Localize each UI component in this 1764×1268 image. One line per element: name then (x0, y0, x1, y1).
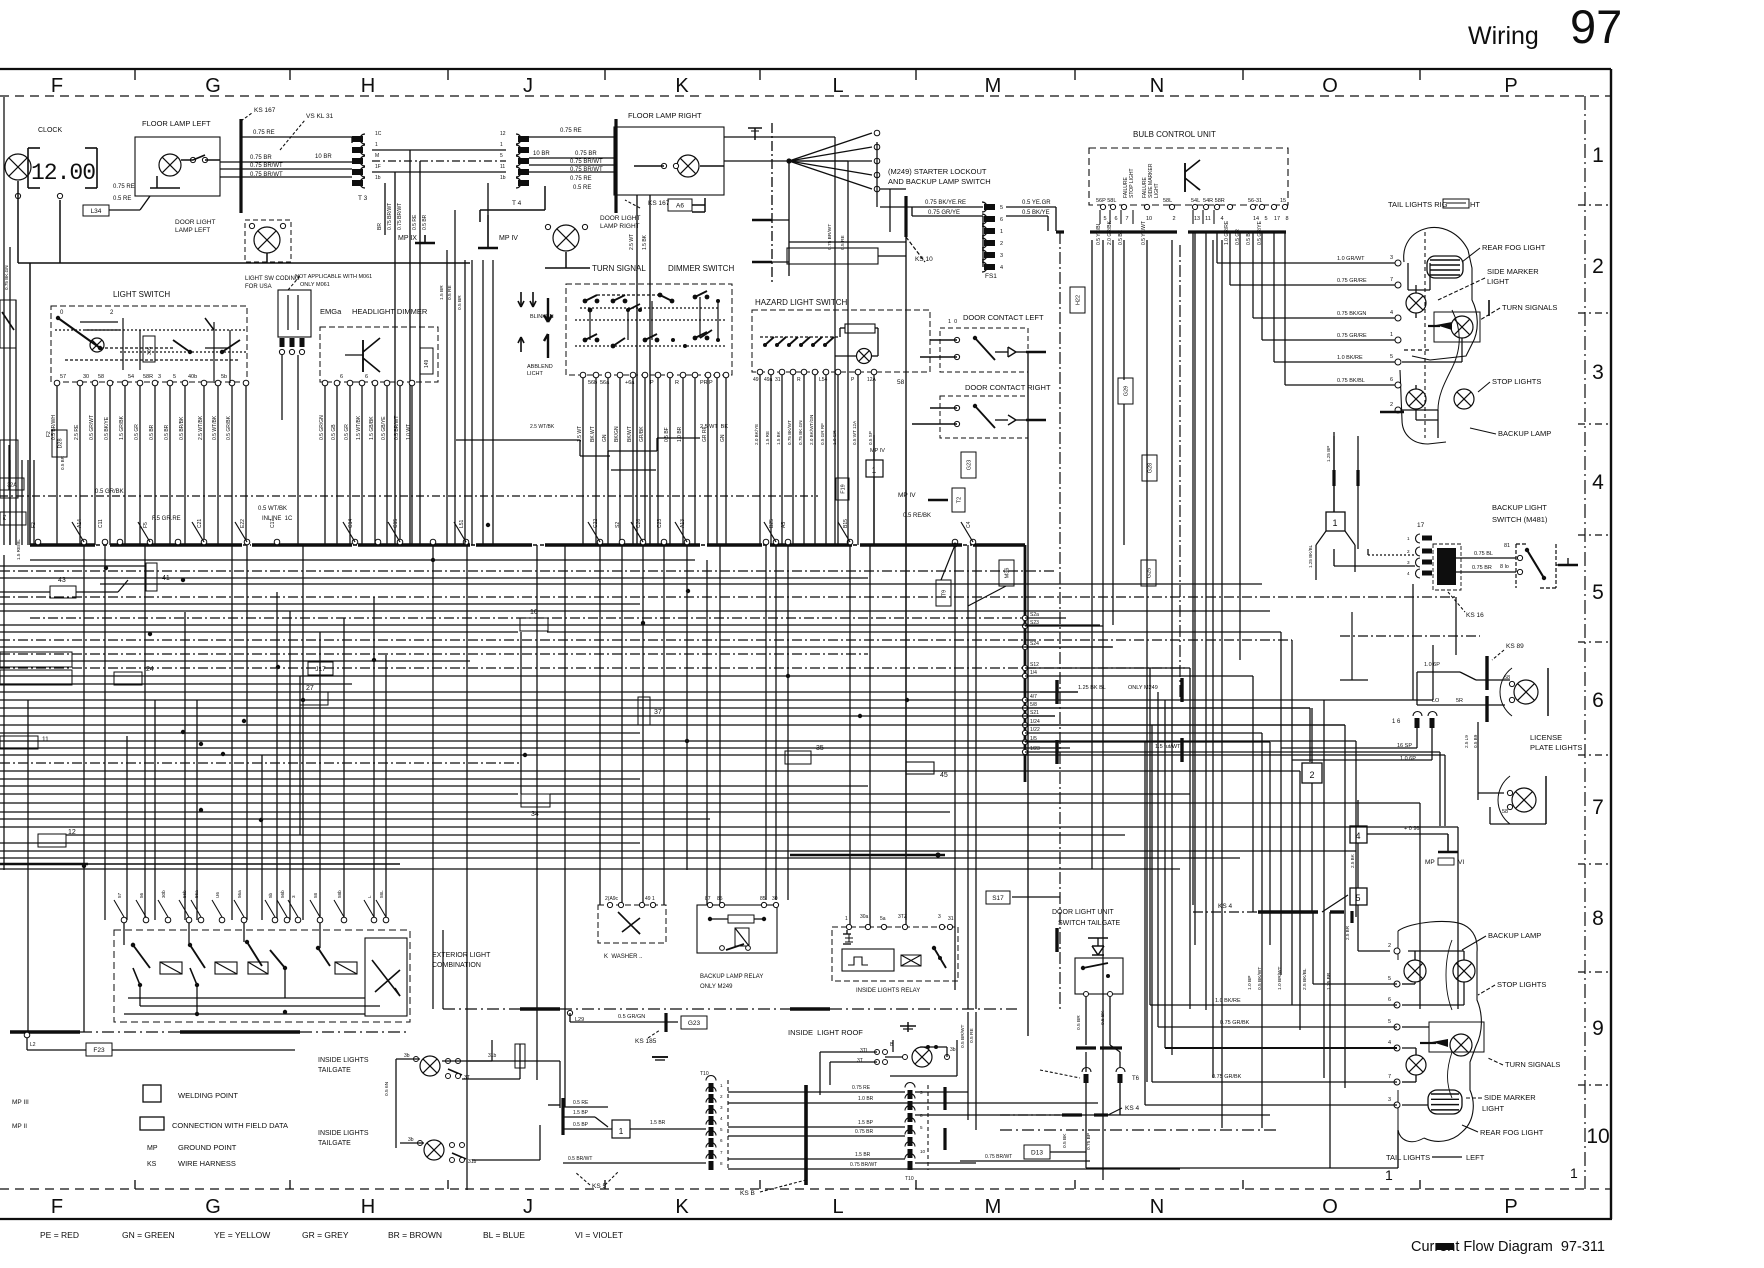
KS black connector block (1433, 544, 1484, 619)
svg-text:C22: C22 (593, 519, 599, 528)
svg-text:0.75 GR/RE: 0.75 GR/RE (1337, 333, 1367, 339)
svg-text:27: 27 (306, 685, 314, 692)
svg-text:BR = BROWN: BR = BROWN (388, 1230, 442, 1240)
boxed label M36 (999, 560, 1014, 586)
svg-text:0.75 RE: 0.75 RE (253, 130, 275, 136)
bus diagonal stubs (72, 522, 973, 542)
svg-text:0.5 BR: 0.5 BR (149, 424, 155, 440)
svg-text:J17: J17 (315, 666, 326, 673)
svg-text:4: 4 (1390, 310, 1393, 316)
svg-text:SWITCH (M481): SWITCH (M481) (1492, 515, 1548, 524)
svg-text:T 3: T 3 (358, 195, 368, 202)
svg-text:2.5 WT/BK: 2.5 WT/BK (198, 415, 204, 440)
svg-text:30a: 30a (860, 914, 869, 920)
svg-text:J: J (523, 1196, 533, 1218)
svg-text:ABBLEND: ABBLEND (527, 364, 553, 370)
vertical wires through field (28, 430, 976, 1190)
connector stack FS1 (982, 202, 1003, 280)
svg-text:KS 16: KS 16 (1466, 612, 1484, 619)
svg-text:G23: G23 (967, 460, 973, 470)
turn signal dimmer switch label (592, 264, 734, 273)
svg-text:DOOR CONTACT RIGHT: DOOR CONTACT RIGHT (965, 383, 1051, 392)
svg-text:11: 11 (1205, 216, 1211, 222)
svg-text:P: P (709, 380, 713, 386)
license plate light lower bulb (1478, 722, 1546, 824)
NE vertical wire bundle (1092, 232, 1285, 1180)
svg-text:7: 7 (1388, 1074, 1391, 1080)
svg-text:G: G (205, 1196, 221, 1218)
svg-text:1.5 BP: 1.5 BP (573, 1110, 589, 1116)
boxed label F19 (836, 478, 849, 500)
svg-text:TURN SIGNAL: TURN SIGNAL (592, 264, 646, 273)
svg-text:57: 57 (117, 892, 122, 898)
svg-text:0.75 BL: 0.75 BL (1474, 551, 1493, 557)
svg-text:EXTERIOR LIGHT: EXTERIOR LIGHT (432, 952, 491, 959)
svg-text:0.75 GR/RE: 0.75 GR/RE (1337, 278, 1367, 284)
svg-text:0.75 BK/BL: 0.75 BK/BL (1337, 378, 1365, 384)
svg-text:85: 85 (717, 896, 723, 902)
headlight dimmer wire labels (319, 415, 412, 440)
ground MP IX (398, 235, 435, 243)
svg-text:7: 7 (1592, 796, 1604, 819)
svg-text:KS 4: KS 4 (1218, 903, 1232, 910)
KS 185 label bottom (635, 1030, 668, 1060)
svg-text:P: P (1504, 75, 1517, 97)
bulb control unit terminals (1100, 204, 1287, 209)
svg-text:0.5 BK/WT: 0.5 BK/WT (1257, 967, 1263, 990)
boxed label T2 right of hazard (952, 488, 965, 512)
license plate connector pair (1392, 712, 1437, 729)
hazard switch contacts (760, 328, 878, 356)
svg-text:T10: T10 (905, 1176, 914, 1182)
legend wire harness (147, 1159, 236, 1168)
backup light switch label (1492, 503, 1548, 524)
svg-text:S17: S17 (992, 895, 1004, 902)
svg-text:0.5 RE: 0.5 RE (447, 285, 453, 300)
svg-text:7: 7 (1390, 277, 1393, 283)
svg-text:0.75 BR: 0.75 BR (575, 151, 597, 157)
wires floor lamp left to H connector (220, 130, 352, 178)
svg-text:KS 4: KS 4 (1125, 1105, 1139, 1112)
svg-text:TURN SIGNALS: TURN SIGNALS (1505, 1060, 1560, 1069)
svg-text:C21: C21 (197, 519, 203, 528)
svg-text:1.5 BK: 1.5 BK (642, 234, 648, 250)
svg-text:0.5 GR/GN: 0.5 GR/GN (319, 415, 325, 440)
svg-text:INSIDE LIGHTS RELAY: INSIDE LIGHTS RELAY (856, 988, 920, 994)
svg-text:DOOR LIGHT: DOOR LIGHT (175, 219, 215, 226)
svg-text:INSIDE LIGHT ROOF: INSIDE LIGHT ROOF (788, 1028, 863, 1037)
svg-text:N: N (1150, 75, 1164, 97)
svg-text:U6: U6 (215, 892, 220, 898)
svg-text:30: 30 (83, 374, 89, 380)
svg-text:5: 5 (173, 374, 176, 380)
light switch terminal drops to bus (57, 386, 246, 545)
svg-text:85: 85 (760, 896, 766, 902)
svg-text:9: 9 (1592, 1017, 1604, 1040)
svg-text:7: 7 (720, 1150, 723, 1155)
svg-text:BACKUP LAMP: BACKUP LAMP (1498, 429, 1551, 438)
svg-text:ONLY M249: ONLY M249 (700, 984, 733, 990)
svg-text:2: 2 (1388, 943, 1391, 949)
svg-text:1: 1 (845, 916, 848, 922)
ground MP IV (478, 183, 518, 248)
row band dash-dot divider vertical (1584, 96, 1586, 1189)
svg-text:SIDE MARKER: SIDE MARKER (1487, 267, 1539, 276)
svg-text:1.5 RE/BL: 1.5 RE/BL (16, 539, 21, 560)
ground MP 2 VI (1367, 826, 1464, 866)
floor lamp right bulb (677, 155, 699, 177)
staircase wires above bus (456, 424, 728, 470)
svg-text:1.5 BR: 1.5 BR (650, 1120, 666, 1126)
svg-text:10 BR: 10 BR (533, 151, 550, 157)
svg-text:3b: 3b (408, 1137, 414, 1143)
svg-text:15: 15 (1280, 198, 1286, 204)
exterior light combination terminal labels (117, 890, 384, 898)
left edge partial switch box (0, 300, 16, 348)
backup switch contacts (1516, 544, 1578, 588)
svg-text:56-31: 56-31 (1248, 198, 1262, 204)
svg-text:REAR FOG LIGHT: REAR FOG LIGHT (1482, 243, 1546, 252)
boxed label J17 (308, 662, 333, 675)
turn signal wire labels (577, 426, 726, 442)
svg-text:2.5 WT: 2.5 WT (629, 234, 635, 250)
svg-text:49: 49 (753, 377, 759, 383)
door light lamp left label (175, 219, 215, 234)
svg-text:L2: L2 (30, 1042, 36, 1048)
svg-text:BACKUP LIGHT: BACKUP LIGHT (1492, 503, 1547, 512)
svg-text:13: 13 (1194, 216, 1200, 222)
svg-text:F.5 GR.RE: F.5 GR.RE (152, 516, 181, 522)
svg-text:2.5 BR: 2.5 BR (1345, 925, 1350, 940)
bus terminal labels (31, 519, 972, 528)
svg-text:8: 8 (1592, 907, 1604, 930)
svg-text:TAILGATE: TAILGATE (318, 1140, 351, 1147)
inside lights tailgate label lower (318, 1130, 369, 1147)
label 58 junction (897, 237, 906, 920)
svg-text:G23: G23 (688, 1020, 701, 1027)
svg-text:A13: A13 (680, 519, 686, 528)
svg-text:L: L (367, 895, 372, 898)
svg-text:0.75 BR/WT: 0.75 BR/WT (387, 203, 393, 230)
svg-text:0.5 RE: 0.5 RE (969, 1028, 975, 1043)
svg-text:3: 3 (938, 914, 941, 920)
svg-text:0.5 YE/WT: 0.5 YE/WT (1141, 221, 1147, 245)
svg-text:30: 30 (772, 896, 778, 902)
svg-text:1.5 BR: 1.5 BR (855, 1152, 871, 1158)
svg-text:KS B: KS B (740, 1190, 755, 1197)
hazard light switch box (752, 310, 930, 372)
starter lockout lower connector box (787, 242, 906, 276)
svg-text:BACKUP LAMP: BACKUP LAMP (1488, 931, 1541, 940)
feeder terminals and labels (1022, 612, 1040, 755)
boxed label S17 (986, 891, 1060, 904)
tailgate lamp wires right (462, 1040, 560, 1160)
interior coding connector (245, 274, 372, 355)
svg-text:0.5 GR: 0.5 GR (134, 424, 140, 440)
svg-text:5a: 5a (880, 916, 886, 922)
svg-text:D13: D13 (1031, 1149, 1043, 1156)
svg-text:LIGHT: LIGHT (1154, 183, 1160, 198)
svg-text:0.75 BR: 0.75 BR (1472, 565, 1492, 571)
svg-text:H22: H22 (1076, 295, 1082, 305)
svg-text:2.5 RE: 2.5 RE (74, 424, 80, 440)
svg-text:5b: 5b (268, 892, 273, 898)
svg-text:37: 37 (654, 709, 662, 716)
svg-text:43: 43 (58, 577, 66, 584)
svg-text:56P 58L: 56P 58L (1096, 198, 1116, 204)
svg-text:KS 167: KS 167 (254, 107, 276, 114)
left margin stacked connector boxes (0, 512, 72, 749)
svg-text:S12: S12 (1030, 662, 1039, 668)
svg-text:A14: A14 (77, 519, 83, 528)
wires feeding tail left (1145, 905, 1397, 1105)
door contact left switch (920, 319, 1046, 1036)
svg-text:FLOOR LAMP RIGHT: FLOOR LAMP RIGHT (628, 111, 702, 120)
rear fog light left label (1462, 1125, 1544, 1137)
exterior light combination label (432, 952, 491, 969)
legend welding point (143, 1085, 238, 1102)
svg-text:CLOCK: CLOCK (38, 127, 62, 134)
svg-text:2: 2 (1407, 549, 1410, 554)
big bold vertical KS B (740, 1085, 806, 1197)
boxed label G28 (1142, 455, 1157, 481)
riser from 4/7 line (1432, 645, 1434, 700)
svg-text:INLINE 1C: INLINE 1C (262, 516, 293, 522)
svg-text:C26: C26 (636, 519, 642, 528)
stop lights right bulbs (1406, 389, 1474, 409)
exterior light relay 4 (316, 923, 357, 974)
svg-text:0.5 BK/YE: 0.5 BK/YE (104, 416, 110, 440)
svg-text:49 1: 49 1 (645, 896, 655, 902)
svg-text:58R: 58R (143, 374, 153, 380)
tail left terminals (1388, 943, 1400, 1108)
wire F23 right (112, 1049, 295, 1051)
boxed label T9 (936, 580, 951, 606)
fuse label L34 (83, 184, 150, 216)
turn signal extra contacts (575, 299, 725, 348)
svg-text:81: 81 (1504, 543, 1510, 549)
svg-text:+6a: +6a (625, 380, 635, 386)
svg-text:KS 10: KS 10 (915, 256, 933, 263)
svg-text:4/7: 4/7 (1030, 694, 1037, 700)
boxed connector 1 bottom (612, 1120, 706, 1138)
svg-text:34: 34 (531, 811, 539, 818)
light switch wire color labels (51, 415, 232, 440)
roof light drops (960, 1012, 976, 1130)
svg-text:H: H (361, 1196, 375, 1218)
svg-text:DOOR CONTACT LEFT: DOOR CONTACT LEFT (963, 313, 1044, 322)
svg-text:1: 1 (619, 1126, 624, 1136)
svg-text:BULB CONTROL UNIT: BULB CONTROL UNIT (1133, 130, 1216, 139)
svg-text:4: 4 (1000, 265, 1003, 271)
wires to boxed 1 connector (563, 1100, 612, 1129)
svg-text:5: 5 (1355, 893, 1360, 903)
column letters bottom (51, 1196, 1518, 1218)
svg-text:5: 5 (1390, 354, 1393, 360)
svg-text:0.75 GR/BK: 0.75 GR/BK (1212, 1074, 1242, 1080)
svg-text:BK/WT: BK/WT (627, 426, 633, 442)
bulb control unit box (1089, 148, 1288, 205)
svg-text:M: M (985, 1196, 1002, 1218)
svg-text:1 6: 1 6 (1392, 719, 1401, 725)
column boundary ticks (135, 69, 1420, 1189)
svg-text:5R: 5R (1456, 698, 1463, 704)
svg-text:11: 11 (42, 736, 49, 743)
wires bulb unit to tail right (1217, 256, 1395, 385)
clock display 12.00 (28, 148, 97, 188)
svg-text:6: 6 (720, 1138, 723, 1143)
svg-text:LIGHT: LIGHT (1487, 277, 1510, 286)
svg-text:1.0 BK/RE: 1.0 BK/RE (1215, 998, 1241, 1004)
license plate harness bold ticks (1485, 656, 1488, 722)
svg-text:MP II: MP II (12, 1123, 27, 1130)
svg-text:+ 0 96: + 0 96 (1404, 826, 1419, 832)
license plate wires lower (1281, 728, 1478, 762)
headlight dimmer box (320, 327, 438, 382)
svg-text:4: 4 (1407, 571, 1410, 576)
svg-text:24: 24 (146, 666, 154, 673)
door light unit ground and diode (1088, 938, 1108, 955)
svg-text:LICHT: LICHT (527, 371, 544, 377)
wires across KS B (728, 1085, 1180, 1169)
svg-text:58: 58 (98, 374, 104, 380)
svg-text:1.0 BR: 1.0 BR (858, 1096, 874, 1102)
svg-text:HEADLIGHT DIMMER: HEADLIGHT DIMMER (352, 307, 428, 316)
svg-text:5: 5 (720, 1127, 723, 1132)
svg-text:2: 2 (1000, 241, 1003, 247)
svg-text:F5: F5 (143, 522, 149, 528)
svg-text:O: O (1322, 1196, 1338, 1218)
svg-text:HAZARD LIGHT SWITCH: HAZARD LIGHT SWITCH (755, 298, 848, 307)
starter lockout grounds (752, 218, 789, 262)
svg-text:SIDE MARKER: SIDE MARKER (1484, 1093, 1536, 1102)
exterior light relay 3 (244, 923, 287, 974)
svg-text:57: 57 (60, 374, 66, 380)
KS 4 dash line row8 (1193, 895, 1348, 912)
svg-text:P: P (1504, 1196, 1517, 1218)
svg-text:PR: PR (700, 380, 708, 386)
svg-text:EMGa: EMGa (320, 307, 342, 316)
svg-text:L51: L51 (459, 519, 465, 528)
svg-text:LICENSE: LICENSE (1530, 733, 1562, 742)
headlight dimmer transistor symbol (345, 338, 380, 372)
svg-text:VI = VIOLET: VI = VIOLET (575, 1230, 623, 1240)
svg-text:0.5 BR/WT: 0.5 BR/WT (568, 1156, 592, 1162)
svg-text:0.5 BL: 0.5 BL (1246, 230, 1252, 245)
svg-text:L: L (832, 75, 843, 97)
svg-text:1.25 BK BL: 1.25 BK BL (1078, 685, 1106, 691)
fan terminal feeder lines (877, 142, 906, 232)
boxed label 32A left (0, 478, 24, 490)
svg-text:2.5 L9: 2.5 L9 (1464, 735, 1469, 748)
bottom harness bus middle dash-dot (443, 930, 1017, 1009)
rear fog light lamp (hatched) (1427, 256, 1463, 278)
svg-text:2(A9c: 2(A9c (605, 896, 619, 902)
svg-text:6: 6 (1388, 997, 1391, 1003)
wire labels below bulb control unit (1096, 220, 1263, 245)
svg-text:12A: 12A (867, 377, 877, 383)
svg-text:GR/BK: GR/BK (639, 426, 645, 442)
harness divider dash-dot vertical O (1179, 245, 1181, 700)
svg-text:ONLY M249: ONLY M249 (1128, 685, 1158, 691)
fuse 34 box (521, 794, 550, 818)
svg-text:0.5 BR: 0.5 BR (1076, 1015, 1082, 1030)
svg-text:3: 3 (1592, 361, 1604, 384)
svg-text:2.5 WT/BK: 2.5 WT/BK (530, 424, 555, 430)
svg-text:FLOOR LAMP LEFT: FLOOR LAMP LEFT (142, 119, 211, 128)
svg-text:2: 2 (1390, 402, 1393, 408)
svg-text:T 4: T 4 (512, 200, 522, 207)
harness KS 167 bold line right (616, 119, 670, 213)
svg-text:P: P (650, 380, 654, 386)
svg-text:MP IV: MP IV (499, 235, 518, 242)
svg-text:TAIL LIGHTS: TAIL LIGHTS (1386, 1153, 1430, 1162)
exterior light relay 2 (188, 923, 237, 987)
svg-text:0.5 RE/BK: 0.5 RE/BK (903, 513, 931, 519)
door light unit switch box (1075, 958, 1123, 997)
svg-text:0.75 BR: 0.75 BR (855, 1129, 873, 1135)
KS 4 bottom label (1000, 1105, 1139, 1115)
bulb control unit bold bus (1056, 230, 1286, 233)
svg-text:4: 4 (720, 1116, 723, 1121)
fuse 12 box (38, 829, 76, 847)
svg-text:0.5 WT 12A: 0.5 WT 12A (852, 420, 857, 445)
svg-text:0.5 YE.GR: 0.5 YE.GR (1022, 200, 1051, 206)
svg-text:Wiring: Wiring (1468, 22, 1539, 50)
harness KS 16 bold line (241, 107, 334, 213)
svg-text:FOR USA: FOR USA (245, 284, 272, 290)
svg-text:BR: BR (377, 223, 383, 230)
svg-text:58L: 58L (379, 890, 384, 898)
svg-text:1: 1 (1390, 332, 1393, 338)
svg-text:R: R (675, 380, 679, 386)
svg-text:0.5 BF: 0.5 BF (664, 427, 670, 442)
svg-text:12: 12 (68, 829, 76, 836)
svg-text:LAMP LEFT: LAMP LEFT (175, 227, 210, 234)
svg-text:DOOR LIGHT: DOOR LIGHT (600, 215, 640, 222)
svg-text:58: 58 (897, 379, 905, 386)
svg-text:12: 12 (500, 131, 506, 137)
svg-text:F1: F1 (2, 514, 8, 520)
boxed relay 5 row8 (1350, 888, 1367, 905)
svg-text:1.0 6P: 1.0 6P (1400, 756, 1416, 762)
svg-text:0.75 BK.GN: 0.75 BK.GN (4, 265, 9, 290)
svg-text:D28: D28 (58, 438, 64, 448)
wires H stack to J stack (372, 150, 506, 545)
svg-text:1.0 GR/RE: 1.0 GR/RE (1224, 220, 1230, 245)
svg-text:1: 1 (500, 142, 503, 148)
bus terminal connectors (35, 539, 976, 545)
svg-text:0.5 GR: 0.5 GR (344, 424, 350, 440)
boxed relay 4 row7 (1350, 800, 1367, 888)
svg-text:F2: F2 (46, 431, 52, 437)
svg-text:BK/GN: BK/GN (614, 426, 620, 442)
svg-text:PE = RED: PE = RED (40, 1230, 79, 1240)
svg-text:1.0 BP: 1.0 BP (1247, 976, 1253, 990)
svg-text:56b: 56b (280, 890, 285, 898)
legend connection with field data (140, 1117, 288, 1130)
svg-text:2: 2 (110, 310, 114, 316)
svg-text:KS 89: KS 89 (1506, 643, 1524, 650)
horizontal wire field (0, 560, 1458, 869)
svg-text:4: 4 (1388, 1040, 1391, 1046)
svg-text:2: 2 (720, 1094, 723, 1099)
fuse 24 box (114, 666, 154, 685)
svg-text:0.75 BK/GN: 0.75 BK/GN (1337, 311, 1366, 317)
boxed relay 2 row7 (1302, 708, 1322, 912)
backup lamps left bulbs (1358, 931, 1541, 1005)
wire L29 to G23 (567, 1010, 678, 1032)
